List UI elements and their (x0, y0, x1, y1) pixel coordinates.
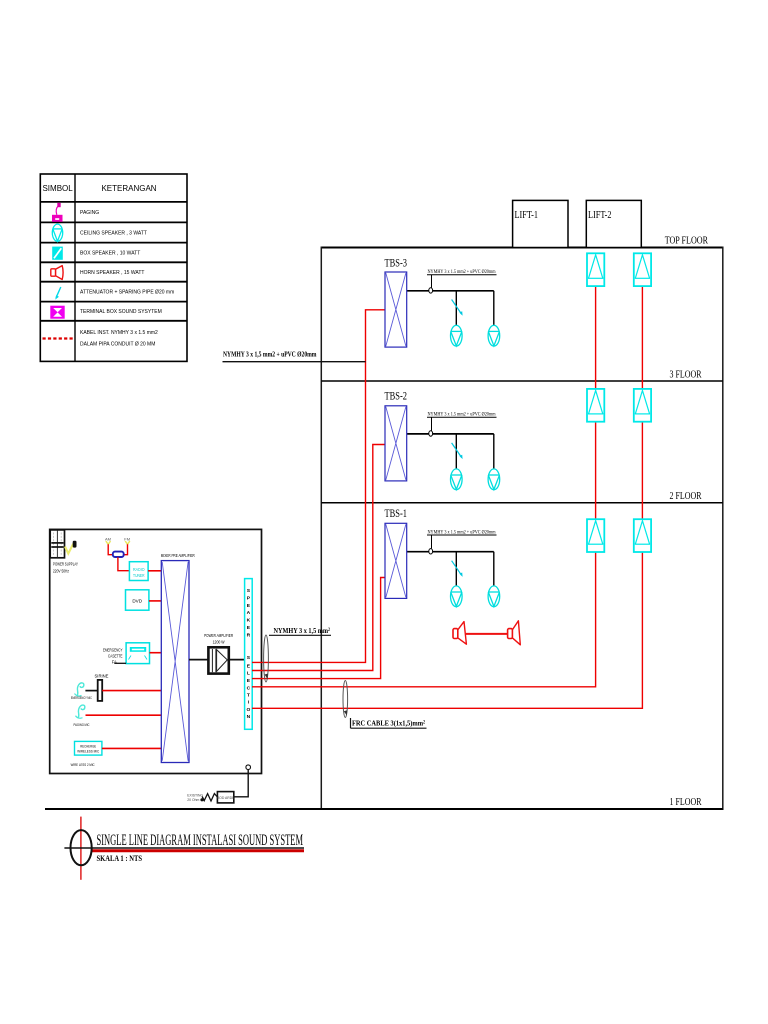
svg-text:NYMHY 3 x 1.5 mm2 + uPVC Ø20m: NYMHY 3 x 1.5 mm2 + uPVC Ø20mm (428, 270, 496, 275)
svg-text:NYMHY 3 x 1.5 mm2 + uPVC Ø20m: NYMHY 3 x 1.5 mm2 + uPVC Ø20mm (428, 413, 496, 418)
svg-text:1 FLOOR: 1 FLOOR (670, 797, 702, 808)
svg-text:FM: FM (124, 536, 130, 541)
svg-text:SIRINE: SIRINE (95, 673, 109, 678)
svg-text:EMERGENCY MIC: EMERGENCY MIC (71, 696, 92, 700)
svg-text:K: K (247, 618, 251, 624)
svg-text:WIRELESS MIC: WIRELESS MIC (77, 750, 99, 754)
svg-text:TBS-3: TBS-3 (385, 258, 408, 270)
svg-text:TUNER: TUNER (133, 573, 145, 578)
svg-text:PAGING MIC: PAGING MIC (74, 723, 90, 727)
svg-text:3 FLOOR: 3 FLOOR (670, 370, 702, 381)
svg-text:220V 50Hz: 220V 50Hz (53, 568, 69, 573)
svg-text:PAGING: PAGING (80, 210, 99, 216)
svg-text:SKALA 1 : NTS: SKALA 1 : NTS (97, 854, 143, 863)
svg-text:KETERANGAN: KETERANGAN (101, 184, 156, 193)
svg-text:C: C (247, 686, 251, 692)
svg-text:NYMHY 3 x 1,5 mm²: NYMHY 3 x 1,5 mm² (274, 626, 331, 635)
svg-text:O: O (246, 707, 250, 713)
svg-text:POWER AMPLIFIER: POWER AMPLIFIER (204, 633, 233, 638)
svg-text:TERMINAL BOX SOUND SYSYTEM: TERMINAL BOX SOUND SYSYTEM (80, 309, 162, 315)
svg-text:LIFT-1: LIFT-1 (515, 210, 539, 221)
svg-text:ATTENUATOR + SPARING PIPE Ø20: ATTENUATOR + SPARING PIPE Ø20 mm (80, 290, 174, 296)
svg-text:R: R (247, 632, 251, 638)
svg-text:EMERGENCY: EMERGENCY (103, 648, 123, 653)
svg-text:CASETTE: CASETTE (108, 654, 123, 659)
svg-text:DVD: DVD (132, 599, 142, 604)
svg-text:BOX SPEAKER , 10 WATT: BOX SPEAKER , 10 WATT (80, 251, 140, 257)
svg-text:ROD ARDE: ROD ARDE (217, 796, 235, 800)
svg-text:MIXER PRE AMPLIFIER: MIXER PRE AMPLIFIER (161, 553, 195, 558)
svg-text:AM: AM (105, 536, 111, 541)
svg-text:DALAM PIPA CONDUIT Ø 20 MM: DALAM PIPA CONDUIT Ø 20 MM (80, 342, 155, 348)
svg-text:RADIO: RADIO (133, 567, 145, 572)
svg-text:RECHERGE: RECHERGE (80, 744, 96, 748)
svg-text:TBS-1: TBS-1 (385, 508, 408, 520)
svg-text:FRC CABLE 3(1x1,5)mm²: FRC CABLE 3(1x1,5)mm² (352, 719, 426, 728)
svg-text:EXISTING: EXISTING (187, 793, 203, 797)
svg-text:WIRE LESS 2 MIC: WIRE LESS 2 MIC (71, 762, 95, 767)
svg-text:HORN SPEAKER , 15 WATT: HORN SPEAKER , 15 WATT (80, 270, 144, 276)
svg-text:A: A (247, 610, 251, 616)
svg-text:T: T (247, 692, 250, 698)
svg-text:SINGLE LINE DIAGRAM INSTALASI: SINGLE LINE DIAGRAM INSTALASI SOUND SYST… (97, 832, 304, 849)
svg-text:POWER SUPPLAY: POWER SUPPLAY (53, 561, 78, 566)
svg-text:CEILING SPEAKER , 3 WATT: CEILING SPEAKER , 3 WATT (80, 231, 147, 237)
svg-text:SIMBOL: SIMBOL (42, 184, 73, 193)
svg-text:2 FLOOR: 2 FLOOR (670, 491, 702, 502)
svg-text:L: L (247, 670, 250, 676)
svg-text:20 Ohm: 20 Ohm (187, 798, 199, 802)
svg-text:1200 W: 1200 W (213, 640, 225, 645)
svg-text:NYMHY 3 x 1,5 mm2 + uPVC Ø20m: NYMHY 3 x 1,5 mm2 + uPVC Ø20mm (223, 350, 317, 358)
svg-text:TOP FLOOR: TOP FLOOR (665, 236, 709, 247)
svg-text:N: N (247, 714, 251, 720)
svg-text:KABEL INST. NYMHY 3 x 1.5 mm2: KABEL INST. NYMHY 3 x 1.5 mm2 (80, 330, 158, 336)
svg-text:LIFT-2: LIFT-2 (588, 210, 612, 221)
svg-text:TBS-2: TBS-2 (385, 391, 408, 403)
